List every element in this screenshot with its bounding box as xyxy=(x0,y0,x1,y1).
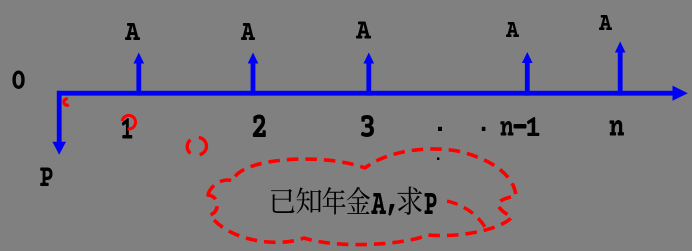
tiny ink speck above cloud text xyxy=(437,158,439,160)
up arrow 5 xyxy=(615,42,626,96)
label A above arrow 3 xyxy=(356,22,371,39)
small red dashed bubble (left arc) xyxy=(187,140,190,154)
up arrow 1 xyxy=(134,53,145,96)
up arrow 3 xyxy=(364,53,375,96)
label 3 below axis xyxy=(361,115,374,137)
label P below down arrow xyxy=(40,168,52,187)
red dashed thought cloud xyxy=(208,149,516,245)
red circle over label 1 xyxy=(122,115,135,129)
label A above arrow 1 xyxy=(125,23,140,40)
label n-1 below axis xyxy=(500,117,539,136)
down arrow at time 0 xyxy=(52,91,66,155)
ellipsis dot 2 xyxy=(482,127,486,131)
label A above arrow 4 xyxy=(506,22,519,37)
up arrow 4 xyxy=(522,52,533,96)
red tick at origin xyxy=(64,99,69,105)
label A above arrow 5 xyxy=(599,15,612,30)
timeline axis with right arrowhead xyxy=(57,86,688,101)
small red dashed bubble (right arc) xyxy=(199,138,207,155)
label 0 (origin) xyxy=(12,71,24,90)
up arrow 2 xyxy=(248,53,259,96)
label 2 below axis xyxy=(253,115,266,138)
label n below axis xyxy=(610,120,625,136)
label 1 below axis xyxy=(122,118,132,139)
label A above arrow 2 xyxy=(241,23,255,40)
cloud inner arc detail xyxy=(447,201,485,227)
cloud text: 已知年金A,求P xyxy=(271,187,437,216)
ellipsis dot 1 xyxy=(438,127,442,131)
